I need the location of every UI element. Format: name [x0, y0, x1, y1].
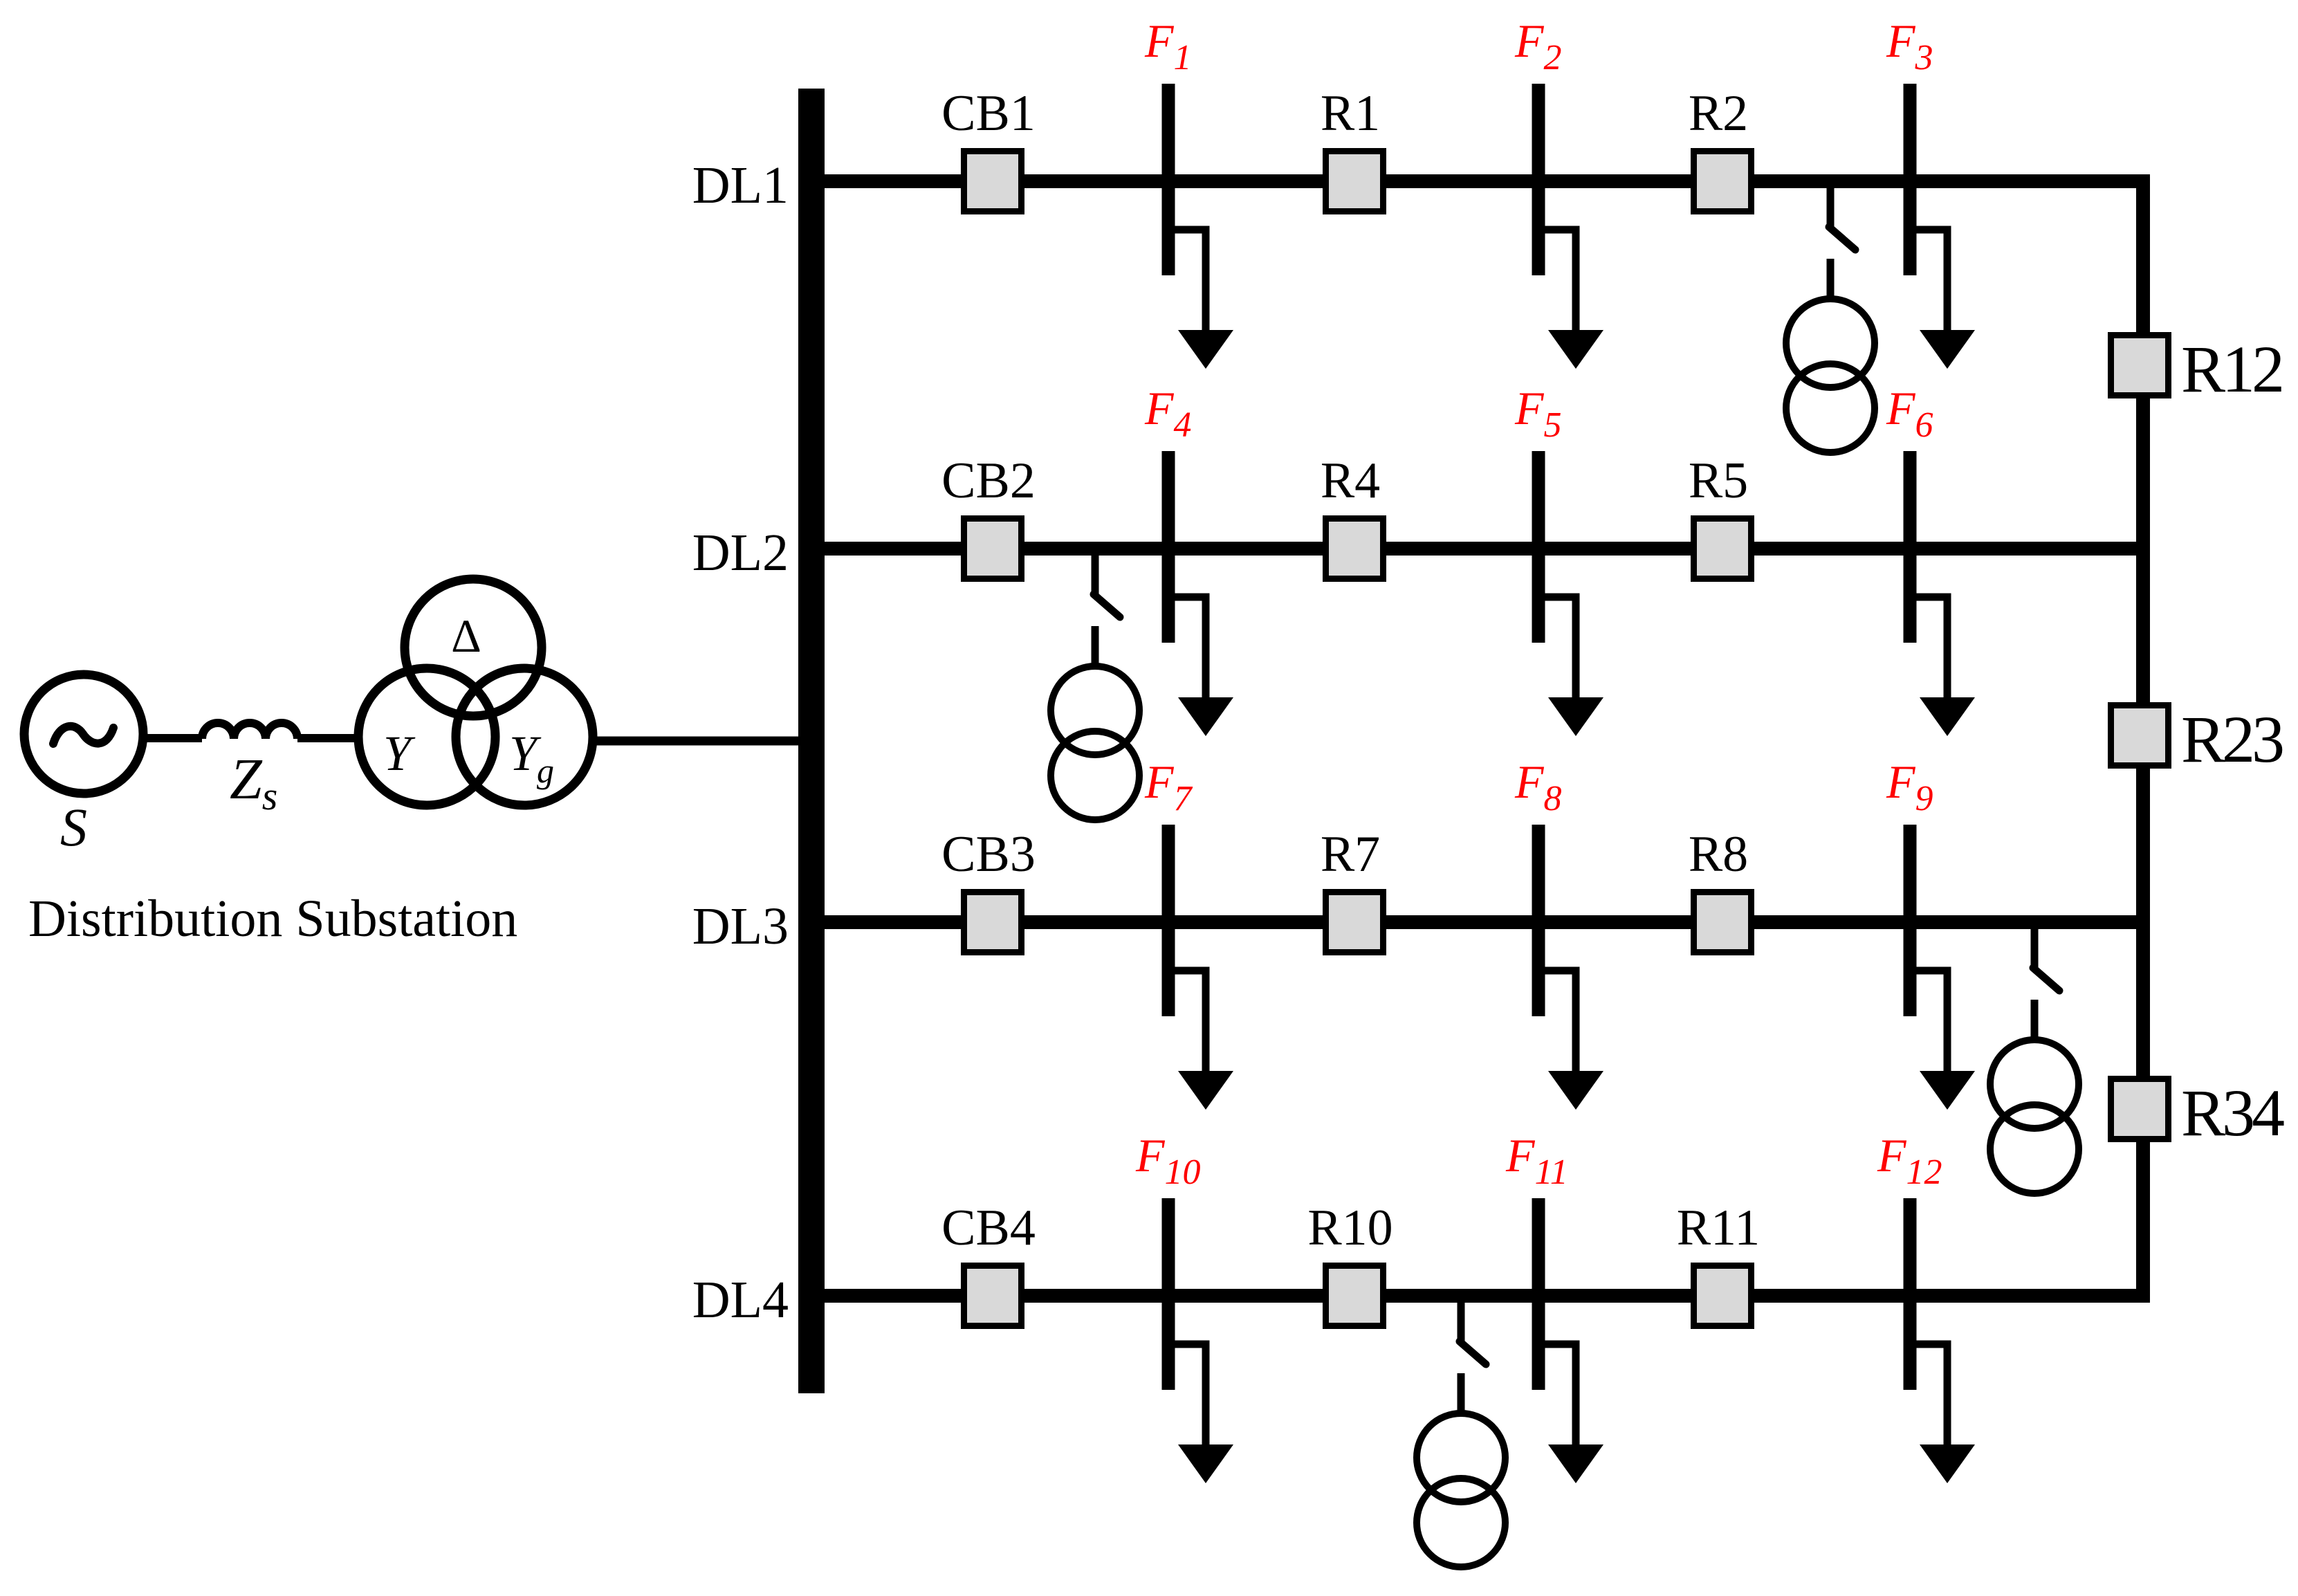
svg-text:F12: F12 [1877, 1129, 1942, 1192]
fault point F6 tick [1904, 451, 1917, 643]
svg-text:Yg: Yg [509, 726, 554, 790]
feeder line DL3 [825, 915, 2150, 929]
svg-text:DL3: DL3 [692, 897, 789, 955]
inductor Zs [202, 723, 297, 739]
svg-text:DL1: DL1 [692, 156, 789, 214]
svg-text:S: S [60, 797, 87, 857]
load arrow at F6 [1910, 597, 1947, 699]
svg-text:CB4: CB4 [941, 1200, 1036, 1256]
tie recloser R34 [2111, 1079, 2169, 1139]
svg-text:R11: R11 [1677, 1200, 1761, 1256]
fault point F11 tick [1532, 1198, 1545, 1390]
fault point F8 tick [1532, 825, 1545, 1016]
main bus bar [798, 89, 825, 1393]
svg-text:F2: F2 [1514, 15, 1562, 77]
svg-text:Zs: Zs [230, 747, 277, 818]
tie recloser R12 [2111, 336, 2169, 396]
circuit breaker CB1 [964, 152, 1022, 212]
switch at DL1 transformer tap [1827, 188, 1835, 227]
recloser R1 [1326, 152, 1384, 212]
wire inductor to transformer [297, 734, 360, 742]
source S circle [24, 675, 143, 794]
svg-text:Δ: Δ [451, 609, 481, 662]
feeder line DL2 [825, 542, 2150, 556]
svg-text:R5: R5 [1689, 452, 1748, 509]
switch at DL3 transformer tap [2031, 929, 2039, 968]
svg-text:DL2: DL2 [692, 524, 789, 582]
load arrow at F11 [1538, 1344, 1576, 1447]
svg-text:F5: F5 [1514, 382, 1562, 445]
load arrow at F10 [1168, 1344, 1206, 1447]
recloser R11 [1694, 1266, 1752, 1326]
svg-text:R10: R10 [1307, 1200, 1392, 1256]
fault point F4 tick [1162, 451, 1175, 643]
recloser R10 [1326, 1266, 1384, 1326]
svg-text:R7: R7 [1321, 826, 1380, 883]
substation transformer: Yg winding circle [456, 668, 593, 805]
circuit breaker CB3 [964, 892, 1022, 953]
load arrow at F9 [1910, 971, 1947, 1073]
svg-text:F3: F3 [1886, 15, 1933, 77]
svg-text:R4: R4 [1321, 452, 1380, 509]
distribution transformer at DL2 [1051, 666, 1139, 755]
svg-text:F1: F1 [1144, 15, 1192, 77]
svg-text:R23: R23 [2181, 702, 2283, 776]
recloser R4 [1326, 519, 1384, 579]
switch at DL2 transformer tap [1092, 556, 1099, 594]
load arrow at F4 [1168, 597, 1206, 699]
source sine symbol [53, 726, 113, 744]
load arrow at F8 [1538, 971, 1576, 1073]
load arrow at F2 [1538, 230, 1576, 332]
fault point F5 tick [1532, 451, 1545, 643]
recloser R8 [1694, 892, 1752, 953]
svg-text:Distribution Substation: Distribution Substation [28, 890, 517, 948]
feeder line DL4 [825, 1289, 2150, 1303]
svg-text:CB3: CB3 [941, 826, 1036, 883]
circuit breaker CB2 [964, 519, 1022, 579]
svg-text:R8: R8 [1689, 826, 1748, 883]
svg-text:R2: R2 [1689, 85, 1748, 142]
svg-text:F10: F10 [1135, 1129, 1201, 1192]
recloser R2 [1694, 152, 1752, 212]
right tie line vertical [2136, 181, 2150, 1296]
svg-text:F9: F9 [1886, 755, 1933, 818]
svg-text:F7: F7 [1144, 755, 1193, 818]
svg-text:F4: F4 [1144, 382, 1192, 445]
substation transformer: Y winding circle [358, 668, 495, 805]
fault point F3 tick [1904, 84, 1917, 275]
recloser R7 [1326, 892, 1384, 953]
distribution transformer at DL1 [1786, 299, 1875, 387]
load arrow at F1 [1168, 230, 1206, 332]
wire transformer to bus [589, 737, 798, 746]
svg-text:DL4: DL4 [692, 1271, 789, 1329]
load arrow at F3 [1910, 230, 1947, 332]
distribution transformer at DL4 [1417, 1413, 1505, 1502]
svg-text:CB1: CB1 [941, 85, 1036, 142]
load arrow at F5 [1538, 597, 1576, 699]
svg-text:CB2: CB2 [941, 452, 1036, 509]
switch at DL4 transformer tap [1458, 1303, 1465, 1341]
fault point F1 tick [1162, 84, 1175, 275]
tie recloser R23 [2111, 706, 2169, 766]
load arrow at F7 [1168, 971, 1206, 1073]
fault point F12 tick [1904, 1198, 1917, 1390]
wire source to inductor [143, 734, 202, 742]
svg-text:Y: Y [383, 726, 416, 781]
fault point F7 tick [1162, 825, 1175, 1016]
svg-text:F11: F11 [1505, 1129, 1568, 1192]
circuit breaker CB4 [964, 1266, 1022, 1326]
load arrow at F12 [1910, 1344, 1947, 1447]
feeder line DL1 [825, 174, 2150, 188]
svg-text:R34: R34 [2181, 1076, 2284, 1150]
distribution transformer at DL3 [1990, 1040, 2079, 1128]
fault point F9 tick [1904, 825, 1917, 1016]
substation transformer: delta winding circle [405, 579, 542, 716]
recloser R5 [1694, 519, 1752, 579]
svg-text:R12: R12 [2181, 332, 2281, 406]
svg-text:R1: R1 [1321, 85, 1380, 142]
fault point F2 tick [1532, 84, 1545, 275]
svg-text:F8: F8 [1514, 755, 1562, 818]
svg-text:F6: F6 [1886, 382, 1933, 445]
fault point F10 tick [1162, 1198, 1175, 1390]
